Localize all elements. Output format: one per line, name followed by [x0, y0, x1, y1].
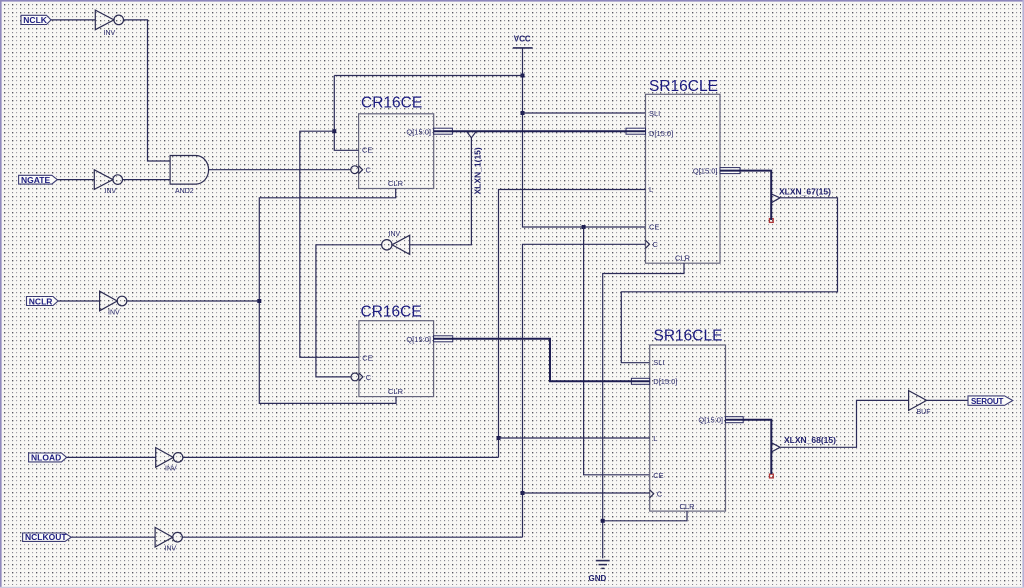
bus tap for XLXN_1(15): [467, 132, 476, 138]
pin label SLI (lower SR16CLE): [653, 358, 664, 367]
bus tap for XLXN_67(15): [771, 194, 780, 203]
svg-text:XLXN_68(15): XLXN_68(15): [784, 435, 836, 445]
net label XLXN_67(15): [779, 187, 831, 197]
open bus end marker (red) upper: [769, 219, 773, 223]
bus connector D input (lower SR16CLE): [631, 378, 649, 384]
pin label Q[15:0] (lower SR16CLE): [698, 415, 723, 424]
pin label Q[15:0] (upper CR16CE): [406, 128, 431, 137]
svg-text:SEROUT: SEROUT: [971, 397, 1003, 406]
junction VCC / SLI rail: [521, 111, 525, 115]
pin C with inversion bubble and clock arrow (upper CR16CE): [351, 165, 372, 174]
svg-text:NCLK: NCLK: [23, 15, 47, 25]
wire L rail up to upper SR16CLE L input: [499, 190, 646, 458]
svg-text:CE: CE: [653, 471, 663, 480]
wire L rail branch to lower SR16CLE L input: [499, 437, 650, 439]
inverter INV (feedback, facing left): [382, 231, 410, 254]
bus connector Q output (upper CR16CE): [434, 128, 453, 134]
wire NLOAD inverter output to L rail: [183, 456, 499, 458]
bus connector Q output (lower SR16CLE): [726, 417, 744, 423]
svg-text:L: L: [653, 434, 657, 443]
pin label CLR (upper SR16CLE): [675, 254, 691, 263]
pin label D[15:0] (lower SR16CLE): [653, 377, 677, 386]
wire lower SR16CLE CLR to ground rail: [603, 511, 687, 521]
and gate AND2: [170, 156, 208, 195]
svg-text:CE: CE: [362, 146, 372, 155]
input terminal NCLK: [21, 15, 51, 25]
bus wire lower SR16CLE Q output: [726, 420, 772, 474]
inverter INV (NGATE): [94, 170, 122, 195]
svg-text:INV: INV: [165, 466, 177, 473]
wire NGATE terminal to inverter: [57, 179, 94, 181]
pin label CLR (lower CR16CE): [388, 387, 404, 396]
svg-text:C: C: [366, 373, 372, 382]
svg-text:SLI: SLI: [649, 109, 660, 118]
wire BUF output to SEROUT terminal: [927, 399, 968, 401]
svg-text:NCLR: NCLR: [29, 296, 53, 306]
VCC power symbol: [513, 35, 533, 48]
wire XLXN_68(15) to BUF input: [780, 400, 909, 447]
net label XLXN_1(15): [473, 147, 483, 194]
svg-text:NLOAD: NLOAD: [31, 453, 61, 463]
svg-text:D[15:0]: D[15:0]: [653, 377, 677, 386]
svg-text:L: L: [649, 185, 653, 194]
svg-text:D[15:0]: D[15:0]: [649, 129, 673, 138]
wire upper SR16CLE CLR to ground rail: [603, 263, 684, 558]
wire VCC down to upper SR16CLE CE input: [523, 48, 646, 227]
input terminal NGATE: [19, 175, 58, 185]
wire NCLR terminal to inverter: [58, 300, 100, 302]
svg-text:VCC: VCC: [514, 35, 531, 44]
wire feedback inverter output to lower CR16CE C input: [316, 245, 382, 377]
shift register block SR16CLE (lower): [650, 327, 726, 511]
wire CE rail branch to lower CR16CE CE input: [300, 131, 359, 357]
svg-text:XLXN_1(15): XLXN_1(15): [473, 147, 483, 194]
junction CE rail branch: [332, 129, 336, 133]
pin label CLR (upper CR16CE): [388, 179, 404, 188]
pin label CE (upper SR16CLE): [649, 223, 659, 232]
shift register block SR16CLE (upper): [646, 78, 721, 263]
svg-text:NGATE: NGATE: [21, 175, 50, 185]
svg-text:NCLKOUT: NCLKOUT: [25, 532, 67, 542]
bus connector D input (upper SR16CLE): [626, 128, 646, 134]
counter block CR16CE (upper): [359, 95, 434, 189]
wire NCLK inverter output to AND2 input 1: [124, 20, 171, 161]
wire NCLKOUT inverter output to clock rail: [182, 536, 522, 538]
svg-text:CLR: CLR: [388, 179, 404, 188]
counter block CR16CE (lower): [359, 304, 434, 397]
pin label CE (lower SR16CLE): [653, 471, 663, 480]
bus wire upper SR16CLE Q output: [720, 171, 771, 220]
buffer BUF: [909, 391, 931, 416]
pin C with clock arrow (upper SR16CLE): [646, 240, 659, 249]
wire clock rail branch to lower SR16CLE C input: [523, 492, 650, 494]
svg-text:SR16CLE: SR16CLE: [649, 78, 718, 95]
pin label CE (upper CR16CE): [362, 146, 372, 155]
output terminal SEROUT: [968, 396, 1013, 406]
wire NCLKOUT terminal to inverter: [71, 536, 155, 538]
inverter INV (NLOAD): [156, 448, 183, 473]
pin C with inversion bubble and clock arrow (lower CR16CE): [351, 373, 372, 382]
pin label SLI (upper SR16CLE): [649, 109, 660, 118]
input terminal NCLKOUT: [23, 532, 72, 542]
wire CLR rail to both CR16CE CLR pins: [259, 189, 396, 404]
bus connector Q output (upper SR16CLE): [720, 168, 740, 174]
svg-text:SR16CLE: SR16CLE: [654, 327, 723, 344]
pin label D[15:0] (upper SR16CLE): [649, 129, 673, 138]
junction NCLR / CLR rail: [257, 299, 261, 303]
GND ground symbol: [589, 561, 610, 583]
pin label L (lower SR16CLE): [653, 434, 657, 443]
svg-text:Q[15:0]: Q[15:0]: [406, 335, 431, 344]
svg-text:INV: INV: [108, 310, 120, 317]
pin label L (upper SR16CLE): [649, 185, 653, 194]
junction VCC / CE rail: [521, 74, 525, 78]
wire CE rail down to upper CR16CE CE input: [334, 76, 358, 151]
svg-text:GND: GND: [589, 574, 607, 583]
wire VCC rail to upper SR16CLE SLI input: [523, 112, 646, 114]
svg-text:SLI: SLI: [653, 358, 664, 367]
junction clock rail branch: [521, 491, 525, 495]
input terminal NLOAD: [29, 453, 67, 463]
bus tap for XLXN_68(15): [771, 443, 780, 452]
svg-text:C: C: [657, 490, 663, 499]
svg-text:INV: INV: [165, 545, 177, 552]
svg-text:CR16CE: CR16CE: [361, 304, 422, 321]
net label XLXN_68(15): [784, 435, 836, 445]
wire CE rail to counters (horizontal top): [334, 75, 522, 77]
svg-text:C: C: [366, 165, 372, 174]
svg-text:CLR: CLR: [680, 502, 696, 511]
junction L rail branch: [497, 436, 501, 440]
wire XLXN_67(15) to lower SR16CLE SLI input: [621, 198, 837, 363]
inverter INV (NCLK): [95, 10, 123, 37]
bus connector Q output (lower CR16CE): [434, 336, 453, 342]
svg-text:INV: INV: [104, 30, 116, 37]
wire NCLK terminal to inverter: [51, 19, 95, 21]
pin label Q[15:0] (upper SR16CLE): [693, 166, 718, 175]
svg-text:XLXN_67(15): XLXN_67(15): [779, 187, 831, 197]
pin label CE (lower CR16CE): [362, 354, 372, 363]
wire AND2 output to upper CR16CE C input: [209, 169, 351, 171]
wire VCC rail to lower SR16CLE CE input: [584, 227, 650, 475]
wire NCLR inverter output to CLR rail: [127, 300, 259, 302]
svg-text:INV: INV: [389, 231, 401, 238]
pin label Q[15:0] (lower CR16CE): [406, 335, 431, 344]
pin C with clock arrow (lower SR16CLE): [650, 490, 663, 499]
svg-text:Q[15:0]: Q[15:0]: [406, 128, 431, 137]
svg-text:BUF: BUF: [917, 409, 931, 416]
svg-text:AND2: AND2: [175, 188, 194, 195]
junction ground rail: [601, 519, 605, 523]
wire NGATE inverter output to AND2 input 2: [123, 179, 171, 181]
svg-text:CLR: CLR: [388, 387, 404, 396]
svg-text:Q[15:0]: Q[15:0]: [698, 415, 723, 424]
svg-text:CE: CE: [649, 223, 659, 232]
svg-text:CLR: CLR: [675, 254, 691, 263]
bus wire upper CR16CE Q[15:0] to upper SR16CLE D[15:0]: [434, 130, 646, 132]
input terminal NCLR: [27, 296, 59, 306]
bus wire lower CR16CE Q[15:0] to lower SR16CLE D[15:0]: [434, 339, 650, 382]
pin label CLR (lower SR16CLE): [680, 502, 696, 511]
inverter INV (NCLR): [100, 291, 127, 316]
wire clock rail up to upper SR16CLE C input: [523, 244, 646, 537]
open bus end marker (red) lower: [770, 474, 774, 478]
wire NLOAD terminal to inverter: [67, 456, 156, 458]
wire XLXN_1(15) tap down to left-facing inverter input: [410, 138, 472, 245]
svg-text:CE: CE: [362, 354, 372, 363]
svg-text:INV: INV: [105, 188, 117, 195]
svg-text:Q[15:0]: Q[15:0]: [693, 166, 718, 175]
svg-text:CR16CE: CR16CE: [361, 95, 422, 112]
svg-text:C: C: [653, 240, 659, 249]
inverter INV (NCLKOUT): [155, 527, 182, 552]
junction VCC / lower SR16CLE CE branch: [582, 225, 586, 229]
